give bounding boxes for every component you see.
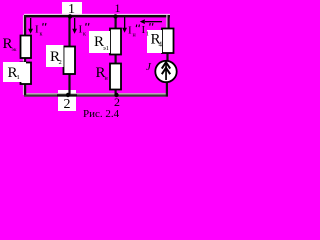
node 2 label box xyxy=(58,90,76,112)
svg-text:I: I xyxy=(142,24,146,36)
svg-text:I: I xyxy=(79,24,83,36)
svg-text:1: 1 xyxy=(146,32,149,38)
wire bottom rail halo xyxy=(24,93,168,94)
label R-n xyxy=(96,65,109,82)
wire right branch vertical top segment xyxy=(166,15,169,29)
resistor R2 (middle) xyxy=(64,47,76,75)
svg-text:2: 2 xyxy=(59,59,62,66)
wire right branch source to bottom segment xyxy=(166,81,168,97)
junction node 4 bottom xyxy=(114,93,118,97)
label I5'' xyxy=(142,23,154,38)
svg-text:I: I xyxy=(128,25,132,37)
current arrow I5'' (top rail, pointing left) xyxy=(140,19,162,24)
wire top rail halo xyxy=(24,14,170,15)
label box R1 xyxy=(3,62,26,82)
label R-ek xyxy=(3,36,17,53)
svg-text:1: 1 xyxy=(115,1,121,15)
junction node 3 top xyxy=(113,14,117,18)
wire middle branch vertical (node1 to node2) xyxy=(68,15,70,95)
svg-text:2: 2 xyxy=(64,97,71,112)
resistor R1 (left bottom) xyxy=(21,63,32,85)
current arrow I3'' (middle branch) xyxy=(72,18,77,34)
resistor R-e1 (center top) xyxy=(110,29,121,55)
label box R-e1 xyxy=(89,31,110,53)
label I-e xyxy=(128,24,140,38)
label box R4 xyxy=(147,30,163,53)
current source J circle xyxy=(155,61,176,82)
label box R2 xyxy=(46,45,64,67)
wire bottom rail xyxy=(24,95,168,97)
resistor R-ek (left top) xyxy=(21,36,32,59)
svg-text:к: к xyxy=(83,32,86,38)
current arrow I2''' (left branch) xyxy=(28,18,33,34)
node 1 label box xyxy=(62,2,82,17)
label I2''' xyxy=(35,23,46,38)
resistor R4 (right top) xyxy=(162,29,174,54)
svg-text:1: 1 xyxy=(17,74,20,81)
svg-text:э1: э1 xyxy=(103,45,109,52)
svg-text:4: 4 xyxy=(159,41,163,49)
junction node 2 xyxy=(66,93,70,97)
svg-text:I: I xyxy=(35,24,39,36)
current arrow I-e (R-e1 branch) xyxy=(122,17,127,33)
label I3'' xyxy=(79,23,90,38)
svg-text:эк: эк xyxy=(12,47,17,53)
wire top rail node1-node3 xyxy=(24,15,170,17)
wire R-equivalent branch vertical xyxy=(115,15,117,95)
junction node 1 xyxy=(68,14,72,18)
wire right branch R4 to source segment xyxy=(166,52,168,62)
wire left branch vertical xyxy=(23,15,26,95)
current source double arrow xyxy=(162,62,170,80)
resistor R-n (center bottom) xyxy=(110,64,121,90)
svg-text:к: к xyxy=(40,32,43,38)
svg-text:Рис. 2.4: Рис. 2.4 xyxy=(83,108,120,120)
